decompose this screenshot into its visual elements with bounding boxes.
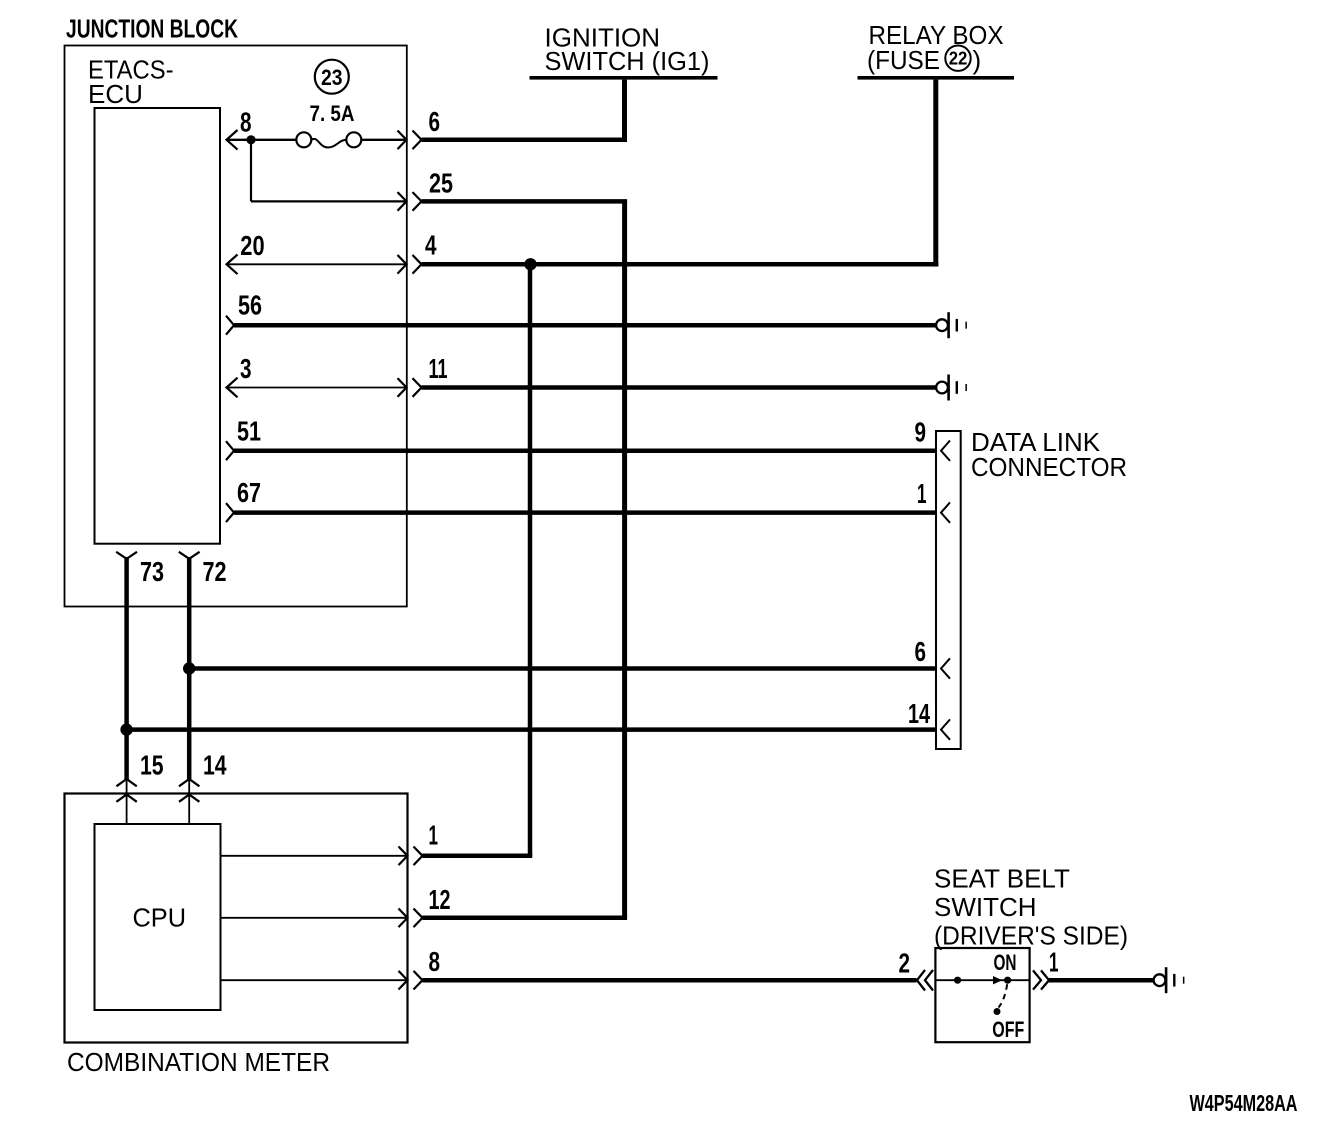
svg-text:ECU: ECU <box>88 79 143 109</box>
svg-text:SWITCH: SWITCH <box>934 892 1037 922</box>
svg-text:22: 22 <box>949 49 968 69</box>
svg-text:JUNCTION BLOCK: JUNCTION BLOCK <box>66 14 238 44</box>
svg-text:(DRIVER'S SIDE): (DRIVER'S SIDE) <box>934 921 1128 951</box>
wire: thin 14 into CPU <box>188 779 190 824</box>
wire: vertical A down to pin 1 <box>528 264 533 856</box>
wire: seat belt switch to terminal <box>1049 978 1154 983</box>
wire: CPU to meter edge row 12 <box>221 917 408 919</box>
wire 12: thick to vertical B <box>423 916 628 921</box>
svg-text:CPU: CPU <box>133 903 187 933</box>
pin 73 arrow at ETACS bottom <box>116 552 137 559</box>
svg-text:20: 20 <box>240 230 264 261</box>
seat belt switch pin 2 arrows <box>917 970 933 991</box>
svg-text:12: 12 <box>429 884 451 915</box>
data link connector box <box>936 431 961 749</box>
ignition switch label <box>545 23 710 77</box>
svg-text:14: 14 <box>908 698 930 729</box>
seat belt switch ON contact dot <box>1004 977 1011 984</box>
combination meter box <box>65 794 408 1043</box>
wire 67: thick to DLC pin 1 <box>226 503 936 522</box>
svg-text:23: 23 <box>321 65 343 90</box>
node: pin 8 junction dot <box>246 135 255 144</box>
seat belt switch OFF throw dashed <box>999 984 1008 1007</box>
junction block edge arrows row 11 <box>398 378 422 397</box>
wire 73: thick vertical <box>124 557 129 779</box>
seat belt switch pin 1 arrows <box>1033 970 1049 989</box>
relay box label <box>867 20 1004 75</box>
meter edge arrows row 8 <box>399 971 423 990</box>
seat belt switch OFF dot <box>994 1008 1001 1015</box>
junction block edge arrows row 6 <box>398 131 422 150</box>
svg-text:SWITCH (IG1): SWITCH (IG1) <box>545 46 710 76</box>
wire: CPU to meter edge row 8 <box>221 979 408 981</box>
wire: ETACS pin 3 row <box>227 378 407 398</box>
meter edge arrows row 12 <box>399 909 423 928</box>
wire 1: thick to vertical A <box>423 854 533 859</box>
seat belt switch label <box>934 864 1128 951</box>
DLC pin 1 terminal arrow <box>941 502 950 522</box>
seat belt switch moving contact arrow <box>994 977 1002 984</box>
wire 6: thick to ignition drop <box>422 138 628 143</box>
wire: thin 15 into CPU <box>126 779 128 824</box>
svg-text:9: 9 <box>915 417 927 448</box>
node: junction dot wire 4 / vertical A <box>524 258 536 270</box>
svg-text:6: 6 <box>429 106 441 137</box>
CPU box <box>95 824 221 1010</box>
svg-text:11: 11 <box>429 353 448 384</box>
seat belt switch contact line <box>935 979 1029 981</box>
wire 11: thick to connector terminal <box>422 385 937 390</box>
svg-text:67: 67 <box>237 477 261 508</box>
svg-text:73: 73 <box>140 556 164 587</box>
svg-text:8: 8 <box>429 946 441 977</box>
connector terminal seat belt wire <box>1154 967 1185 993</box>
svg-text:7. 5A: 7. 5A <box>310 101 355 126</box>
wire 25: thin inside junction block <box>251 200 407 202</box>
ETACS-ECU box <box>95 108 221 544</box>
svg-text:1: 1 <box>429 820 439 851</box>
wire 8: thick to seat belt switch <box>423 978 917 983</box>
wire 56: thick with start arrow <box>226 316 936 335</box>
svg-text:SEAT BELT: SEAT BELT <box>934 864 1070 894</box>
svg-text:1: 1 <box>917 478 927 509</box>
relay box bar <box>858 76 1015 80</box>
pin 15 arrow below meter edge <box>116 795 136 802</box>
svg-text:51: 51 <box>237 416 261 447</box>
junction block outline <box>65 46 407 607</box>
svg-text:1: 1 <box>1049 947 1059 978</box>
junction block edge arrows row 25 <box>398 192 422 211</box>
connector terminal wire 56 <box>936 312 967 338</box>
wire: dot 72 to DLC pin 6 <box>189 666 936 671</box>
wire: ETACS pin 20 row <box>227 255 407 275</box>
fuse 23 element <box>296 132 361 147</box>
fuse 22 circle <box>945 46 970 71</box>
svg-text:72: 72 <box>203 556 227 587</box>
svg-text:8: 8 <box>240 106 252 137</box>
pin 14 arrow below meter edge <box>179 795 199 802</box>
svg-text:CONNECTOR: CONNECTOR <box>971 452 1127 482</box>
meter edge arrows row 1 <box>399 847 423 866</box>
ETACS-ECU label <box>88 55 174 109</box>
junction block edge arrows row 4 <box>398 255 422 274</box>
node: dot wire 73 to DLC pin 14 <box>120 723 132 735</box>
pin 14 arrow above meter <box>179 779 199 786</box>
wire: vertical B down to pin 12 <box>622 201 627 917</box>
wire: relay drop to wire 4 <box>933 80 938 267</box>
svg-text:COMBINATION METER: COMBINATION METER <box>67 1047 330 1077</box>
svg-text:): ) <box>973 45 982 75</box>
wire: ignition drop to pin 6 <box>622 80 627 142</box>
svg-text:W4P54M28AA: W4P54M28AA <box>1190 1090 1298 1116</box>
ignition switch bar <box>530 76 718 80</box>
data link connector label <box>971 427 1127 482</box>
svg-text:OFF: OFF <box>992 1017 1024 1042</box>
connector terminal wire 11 <box>936 375 967 401</box>
svg-text:4: 4 <box>425 230 437 261</box>
wire 51: thick to DLC pin 9 <box>226 441 936 460</box>
wire: ETACS pin 8 to fuse <box>227 130 407 150</box>
DLC pin 9 terminal arrow <box>941 441 950 461</box>
seat belt switch pole dot <box>954 977 961 984</box>
wire: dot 73 to DLC pin 14 <box>127 727 936 732</box>
wire: pin 8 dot down to pin 25 row <box>250 140 252 202</box>
wire: CPU to meter edge row 1 <box>221 855 408 857</box>
svg-text:15: 15 <box>140 749 164 780</box>
svg-text:25: 25 <box>429 168 453 199</box>
wire 4: thick to relay drop <box>422 262 939 267</box>
fuse 23 circle <box>315 60 349 94</box>
svg-text:ON: ON <box>994 950 1017 975</box>
DLC pin 14 terminal arrow <box>941 719 950 739</box>
svg-text:2: 2 <box>899 948 911 979</box>
wire 25: thick to vertical B <box>422 199 628 204</box>
pin 72 arrow at ETACS bottom <box>179 552 200 559</box>
svg-text:(FUSE: (FUSE <box>867 45 940 75</box>
node: dot wire 72 to DLC pin 6 <box>183 662 195 674</box>
svg-text:3: 3 <box>240 353 252 384</box>
wire 72: thick vertical <box>187 557 192 779</box>
seat belt switch box <box>935 948 1029 1042</box>
svg-text:56: 56 <box>238 290 262 321</box>
pin 15 arrow above meter <box>116 779 136 786</box>
DLC pin 6 terminal arrow <box>941 658 950 678</box>
svg-text:6: 6 <box>915 636 927 667</box>
svg-text:14: 14 <box>203 749 227 780</box>
